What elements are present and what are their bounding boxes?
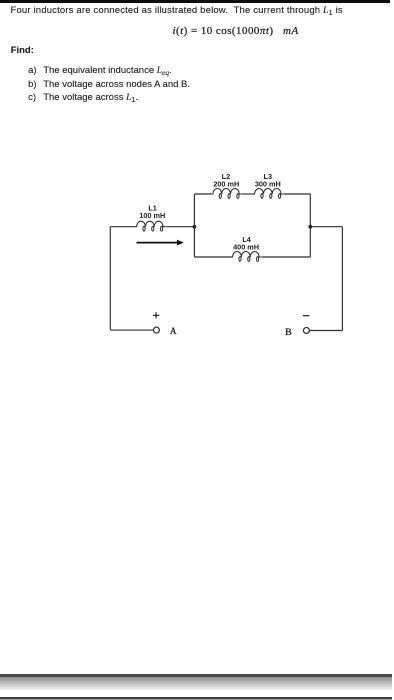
minus sign xyxy=(303,315,310,317)
wire bottom right xyxy=(310,330,343,332)
current arrow xyxy=(137,240,184,246)
plus sign xyxy=(153,312,159,318)
wire between L2 and L3 xyxy=(242,193,254,195)
wire L1 left lead xyxy=(110,226,136,228)
wire bottom left xyxy=(110,329,153,331)
svg-text:200 mH: 200 mH xyxy=(213,179,239,188)
wire bottom branch left lead xyxy=(194,256,232,258)
svg-text:B: B xyxy=(285,327,292,338)
inductor L4 xyxy=(232,252,261,262)
top page border bar xyxy=(0,0,390,3)
item a xyxy=(28,66,36,76)
wire parallel box left xyxy=(193,194,195,257)
problem statement line 1 xyxy=(11,6,343,16)
inductor L3 xyxy=(254,189,283,199)
Find: xyxy=(11,46,34,56)
wire L1 right lead xyxy=(165,226,194,228)
next page top edge xyxy=(0,697,392,699)
equation line xyxy=(173,26,299,36)
wire top branch left lead xyxy=(194,193,212,195)
bottom page edge line xyxy=(0,674,392,677)
wire parallel box right xyxy=(309,194,311,257)
node left junction xyxy=(193,225,197,229)
inductor L1 xyxy=(136,221,165,231)
wire bottom branch right lead xyxy=(261,256,310,258)
terminal B circle xyxy=(303,328,309,334)
next page sliver below edge xyxy=(0,699,392,700)
bottom page shadow gradient xyxy=(0,677,392,690)
wire right stub xyxy=(310,226,342,228)
svg-text:300 mH: 300 mH xyxy=(255,179,281,188)
item c xyxy=(28,93,36,103)
terminal A circle xyxy=(153,327,159,333)
svg-text:A: A xyxy=(170,326,177,336)
wire right vertical xyxy=(341,227,343,331)
node right junction xyxy=(308,225,312,229)
wire left vertical xyxy=(109,227,111,330)
svg-text:400 mH: 400 mH xyxy=(233,242,259,251)
item b xyxy=(28,80,36,90)
svg-text:100 mH: 100 mH xyxy=(139,211,165,220)
wire top branch right lead xyxy=(283,193,310,195)
inductor L2 xyxy=(212,189,241,199)
